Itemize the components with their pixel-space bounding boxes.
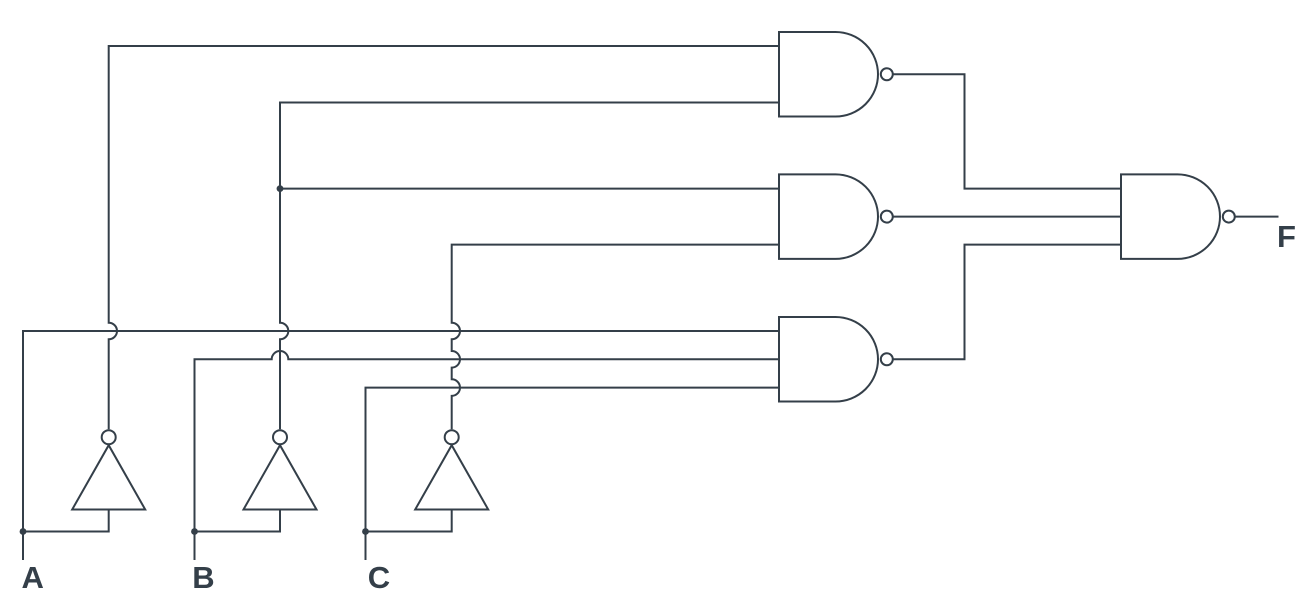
svg-text:C: C xyxy=(368,560,390,595)
inverter U3 (NOT C) xyxy=(415,430,488,509)
svg-text:A: A xyxy=(22,560,44,595)
wire G1 output to gate G4 input 1 xyxy=(894,74,1122,188)
junction dot on C xyxy=(362,528,369,535)
junction dot on A xyxy=(20,528,27,535)
NAND gate G1 xyxy=(779,32,893,117)
wire B to inverter U2 input xyxy=(195,510,281,532)
junction dot NOT-B node xyxy=(277,185,284,192)
node C input wire xyxy=(366,388,780,560)
wire G3 output to gate G4 input 3 xyxy=(894,245,1122,360)
inverter U2 (NOT B) xyxy=(244,430,317,509)
NAND gate G4 xyxy=(1121,174,1235,259)
wire G2 output to gate G4 input 2 xyxy=(894,216,1122,218)
node A input wire xyxy=(23,331,779,560)
wire NOT-A to gate G1 input 1 xyxy=(109,46,779,429)
wire G4 output to F xyxy=(1236,216,1279,218)
wire NOT-B to gate G1 input 2 xyxy=(280,103,779,430)
NAND gate G2 xyxy=(779,174,893,259)
wire NOT-C to gate G2 input 2 xyxy=(452,245,779,430)
NAND gate G3 xyxy=(779,317,893,402)
junction dot on B xyxy=(191,528,198,535)
svg-text:F: F xyxy=(1277,219,1296,254)
wire C to inverter U3 input xyxy=(366,510,452,532)
svg-text:B: B xyxy=(192,560,214,595)
inverter U1 (NOT A) xyxy=(72,430,145,509)
wire NOT-B branch to gate G2 input 1 xyxy=(280,188,779,190)
node B input wire xyxy=(195,351,780,560)
wire A to inverter U1 input xyxy=(23,510,109,532)
